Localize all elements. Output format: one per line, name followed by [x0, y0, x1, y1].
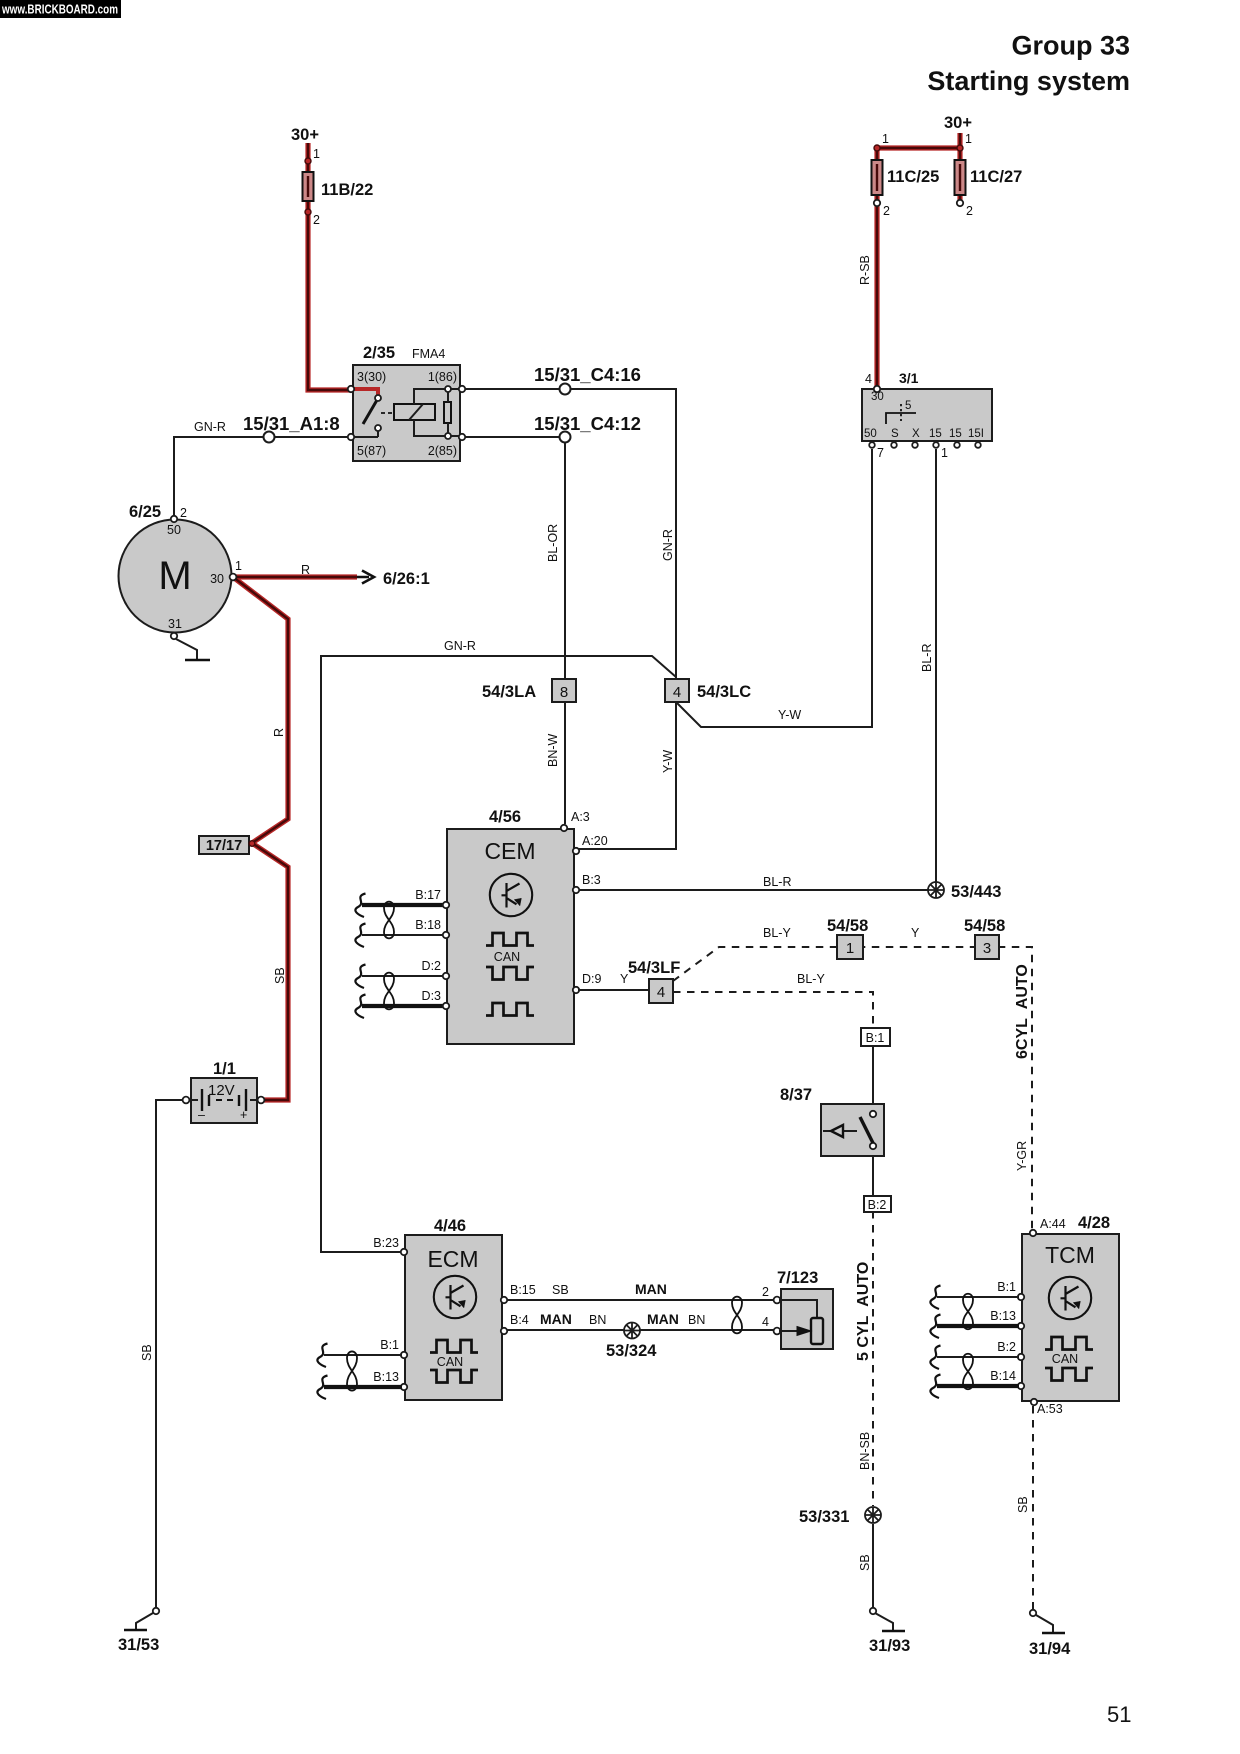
svg-text:M: M — [158, 554, 191, 598]
svg-text:31: 31 — [168, 617, 182, 631]
svg-text:BN-SB: BN-SB — [858, 1432, 872, 1470]
svg-text:1: 1 — [313, 147, 320, 161]
svg-text:Starting system: Starting system — [927, 66, 1130, 96]
svg-text:D:2: D:2 — [422, 959, 442, 973]
svg-text:CAN: CAN — [494, 950, 520, 964]
svg-text:MAN: MAN — [635, 1281, 667, 1297]
svg-text:GN-R: GN-R — [194, 420, 226, 434]
svg-text:15/31_C4:12: 15/31_C4:12 — [534, 413, 641, 434]
svg-text:TCM: TCM — [1045, 1242, 1095, 1268]
svg-text:2: 2 — [966, 204, 973, 218]
svg-text:31/94: 31/94 — [1029, 1640, 1071, 1658]
svg-text:B:13: B:13 — [990, 1309, 1016, 1323]
svg-text:12V: 12V — [208, 1082, 235, 1099]
svg-text:53/331: 53/331 — [799, 1508, 849, 1526]
svg-text:53/324: 53/324 — [606, 1342, 657, 1360]
svg-text:54/58: 54/58 — [827, 917, 868, 935]
svg-text:30+: 30+ — [944, 114, 972, 132]
svg-text:4: 4 — [657, 984, 665, 1001]
svg-text:5(87): 5(87) — [357, 444, 386, 458]
svg-text:B:18: B:18 — [415, 918, 441, 932]
svg-text:A:44: A:44 — [1040, 1217, 1066, 1231]
svg-text:54/3LA: 54/3LA — [482, 683, 536, 701]
svg-text:2/35: 2/35 — [363, 344, 395, 362]
svg-text:4: 4 — [865, 372, 872, 386]
svg-text:51: 51 — [1107, 1702, 1131, 1727]
svg-text:SB: SB — [1016, 1496, 1030, 1513]
svg-text:GN-R: GN-R — [444, 639, 476, 653]
svg-text:30: 30 — [871, 391, 884, 403]
svg-text:+: + — [240, 1108, 247, 1122]
svg-text:MAN: MAN — [647, 1311, 679, 1327]
svg-text:15: 15 — [929, 428, 942, 440]
svg-text:17/17: 17/17 — [206, 838, 242, 854]
svg-text:11C/27: 11C/27 — [970, 168, 1022, 186]
svg-text:2: 2 — [762, 1285, 769, 1299]
svg-text:4/28: 4/28 — [1078, 1214, 1110, 1232]
svg-text:SB: SB — [552, 1283, 569, 1297]
svg-text:BL-R: BL-R — [920, 644, 934, 672]
svg-text:A:20: A:20 — [582, 834, 608, 848]
svg-text:www.BRICKBOARD.com: www.BRICKBOARD.com — [1, 3, 118, 17]
svg-text:4: 4 — [762, 1315, 769, 1329]
svg-text:1: 1 — [965, 132, 972, 146]
svg-text:8/37: 8/37 — [780, 1086, 812, 1104]
svg-text:Y: Y — [911, 926, 920, 940]
svg-text:B:4: B:4 — [510, 1313, 529, 1327]
svg-text:FMA4: FMA4 — [412, 347, 445, 361]
svg-text:A:3: A:3 — [571, 810, 590, 824]
svg-text:CEM: CEM — [484, 838, 535, 864]
svg-text:X: X — [912, 428, 920, 440]
svg-text:2: 2 — [883, 204, 890, 218]
svg-text:SB: SB — [858, 1554, 872, 1571]
svg-text:3(30): 3(30) — [357, 370, 386, 384]
svg-text:6/25: 6/25 — [129, 503, 161, 521]
svg-text:53/443: 53/443 — [951, 883, 1001, 901]
svg-text:7/123: 7/123 — [777, 1269, 818, 1287]
svg-text:Y-GR: Y-GR — [1015, 1141, 1029, 1171]
svg-text:15I: 15I — [968, 428, 984, 440]
svg-text:Group 33: Group 33 — [1011, 31, 1130, 61]
svg-text:1: 1 — [941, 446, 948, 460]
svg-text:6CYL AUTO: 6CYL AUTO — [1014, 964, 1031, 1059]
svg-text:15/31_C4:16: 15/31_C4:16 — [534, 364, 641, 385]
svg-text:B:3: B:3 — [582, 873, 601, 887]
svg-text:11B/22: 11B/22 — [321, 181, 373, 199]
svg-text:B:17: B:17 — [415, 888, 441, 902]
svg-text:B:2: B:2 — [868, 1198, 887, 1212]
svg-text:B:1: B:1 — [866, 1031, 885, 1045]
svg-text:BN-W: BN-W — [546, 733, 560, 767]
svg-text:1: 1 — [846, 940, 854, 957]
svg-text:–: – — [198, 1108, 205, 1122]
svg-text:BL-Y: BL-Y — [763, 926, 791, 940]
svg-text:R-SB: R-SB — [858, 255, 872, 285]
svg-text:BL-R: BL-R — [763, 875, 791, 889]
svg-text:B:13: B:13 — [373, 1370, 399, 1384]
svg-text:1/1: 1/1 — [213, 1060, 236, 1078]
svg-text:MAN: MAN — [540, 1311, 572, 1327]
svg-text:SB: SB — [140, 1344, 154, 1361]
svg-text:R: R — [301, 563, 310, 577]
svg-text:D:9: D:9 — [582, 972, 602, 986]
svg-text:31/53: 31/53 — [118, 1636, 159, 1654]
svg-text:BN: BN — [688, 1313, 705, 1327]
svg-text:BL-Y: BL-Y — [797, 972, 825, 986]
svg-text:30+: 30+ — [291, 126, 319, 144]
svg-text:30: 30 — [210, 572, 224, 586]
svg-text:3: 3 — [983, 940, 991, 957]
svg-text:5: 5 — [905, 400, 911, 412]
svg-text:A:53: A:53 — [1037, 1402, 1063, 1416]
svg-text:4/46: 4/46 — [434, 1217, 466, 1235]
svg-text:8: 8 — [560, 684, 568, 701]
svg-text:GN-R: GN-R — [661, 529, 675, 561]
svg-text:B:1: B:1 — [380, 1338, 399, 1352]
svg-text:7: 7 — [877, 446, 884, 460]
svg-text:B:1: B:1 — [997, 1280, 1016, 1294]
svg-text:ECM: ECM — [427, 1246, 478, 1272]
svg-text:6/26:1: 6/26:1 — [383, 570, 430, 588]
svg-text:31/93: 31/93 — [869, 1637, 910, 1655]
svg-text:54/3LF: 54/3LF — [628, 959, 680, 977]
svg-text:5 CYL AUTO: 5 CYL AUTO — [855, 1262, 872, 1361]
svg-text:2: 2 — [180, 506, 187, 520]
svg-text:B:15: B:15 — [510, 1283, 536, 1297]
svg-text:CAN: CAN — [1052, 1352, 1078, 1366]
svg-text:BL-OR: BL-OR — [546, 524, 560, 562]
svg-text:3/1: 3/1 — [899, 370, 919, 386]
svg-text:50: 50 — [864, 428, 877, 440]
svg-text:1: 1 — [882, 132, 889, 146]
svg-text:15/31_A1:8: 15/31_A1:8 — [243, 413, 340, 434]
svg-text:2(85): 2(85) — [428, 444, 457, 458]
svg-text:B:23: B:23 — [373, 1236, 399, 1250]
svg-text:54/3LC: 54/3LC — [697, 683, 751, 701]
svg-text:50: 50 — [167, 523, 181, 537]
svg-text:Y-W: Y-W — [661, 750, 675, 773]
svg-text:D:3: D:3 — [422, 989, 442, 1003]
svg-text:2: 2 — [313, 213, 320, 227]
svg-text:54/58: 54/58 — [964, 917, 1005, 935]
svg-text:1(86): 1(86) — [428, 370, 457, 384]
svg-text:Y-W: Y-W — [778, 708, 801, 722]
svg-text:B:14: B:14 — [990, 1369, 1016, 1383]
svg-text:B:2: B:2 — [997, 1340, 1016, 1354]
svg-text:Y: Y — [620, 972, 629, 986]
svg-text:R: R — [272, 728, 286, 737]
svg-text:4/56: 4/56 — [489, 808, 521, 826]
svg-text:4: 4 — [673, 684, 681, 701]
svg-text:BN: BN — [589, 1313, 606, 1327]
svg-text:1: 1 — [235, 559, 242, 573]
svg-text:CAN: CAN — [437, 1355, 463, 1369]
svg-text:15: 15 — [949, 428, 962, 440]
svg-text:S: S — [891, 428, 899, 440]
svg-text:SB: SB — [273, 967, 287, 984]
svg-text:11C/25: 11C/25 — [887, 168, 939, 186]
